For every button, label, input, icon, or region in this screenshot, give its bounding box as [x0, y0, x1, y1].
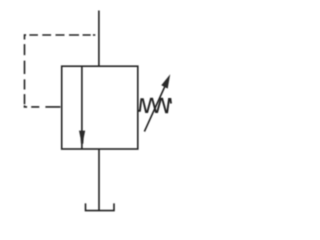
pilot line (dashed) top segment	[25, 34, 96, 36]
tank symbol	[86, 203, 115, 210]
pilot line (dashed) bottom segment	[25, 105, 61, 107]
valve body (envelope box)	[62, 66, 138, 149]
internal flow path	[81, 66, 83, 148]
adjustment arrow shaft	[144, 86, 165, 132]
wire T (to tank)	[98, 149, 100, 210]
spring (right side)	[138, 99, 171, 113]
relief valve schematic	[0, 0, 227, 217]
pilot line (dashed) left segment	[24, 34, 26, 104]
wire P (top supply line)	[98, 11, 100, 67]
internal flow arrowhead	[79, 131, 85, 144]
adjustment arrowhead	[161, 74, 170, 88]
